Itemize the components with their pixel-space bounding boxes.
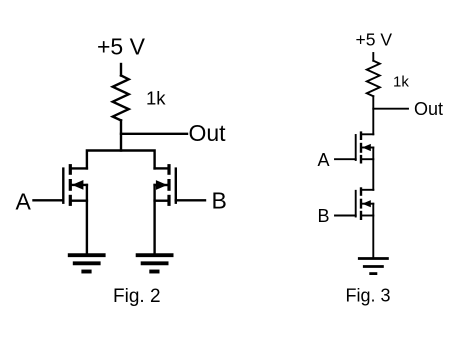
ground symbol (Q2 source) (136, 255, 174, 271)
wire: input B to Q4 gate (335, 215, 356, 217)
svg-text:B: B (318, 206, 330, 226)
svg-text:1k: 1k (393, 74, 409, 91)
resistor R1 (1k, Fig. 2) (113, 76, 129, 121)
svg-text:+5 V: +5 V (97, 34, 146, 60)
svg-text:Out: Out (189, 120, 227, 146)
ground symbol (Fig. 3) (358, 259, 389, 274)
wire: Q4 source/bulk to ground (372, 204, 374, 258)
wire: input A to Q3 gate (335, 158, 356, 160)
wire: +5V supply to resistor R2 top (372, 53, 374, 61)
wire: +5V supply to resistor R1 top (120, 64, 122, 76)
wire: Out branch (Fig. 3) (373, 108, 408, 110)
wire: Q1 source/bulk to ground (86, 185, 88, 254)
wire: input B to Q2 gate (176, 199, 205, 201)
svg-text:A: A (16, 189, 32, 215)
resistor R2 (1k, Fig. 3) (367, 61, 380, 96)
transistor Q1 (NMOS, input A, Fig. 2) (63, 164, 87, 206)
transistor Q2 (NMOS, input B, Fig. 2) (155, 164, 176, 206)
svg-text:+5 V: +5 V (356, 30, 393, 50)
svg-text:A: A (318, 150, 330, 170)
wire: Q3 source to Q4 drain (372, 148, 374, 190)
svg-text:Fig. 2: Fig. 2 (113, 286, 161, 307)
transistor Q3 (NMOS, input A, Fig. 3) (356, 131, 374, 163)
transistor Q4 (NMOS, input B, Fig. 3) (356, 187, 374, 220)
wire: input A to Q1 gate (34, 199, 64, 201)
ground symbol (Q1 source) (68, 255, 106, 271)
svg-text:Fig. 3: Fig. 3 (346, 286, 391, 306)
svg-text:B: B (212, 188, 227, 214)
wire: resistor R2 bottom to Q3 drain (node Out) (372, 96, 374, 134)
svg-text:Out: Out (414, 99, 443, 119)
wire: Out branch (Fig. 2) (121, 133, 187, 135)
wire: resistor R1 bottom to drain rail (node Out) (120, 120, 122, 150)
wire: drain rail connecting Q1 and Q2 drains (87, 151, 155, 169)
wire: Q2 source/bulk to ground (153, 185, 155, 254)
svg-text:1k: 1k (146, 88, 166, 109)
